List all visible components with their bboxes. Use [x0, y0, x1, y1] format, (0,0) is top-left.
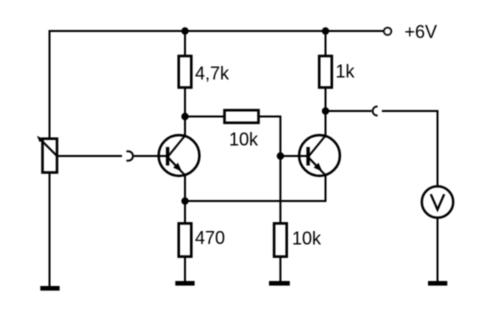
wire: 10k right side down to Q2 base node: [259, 117, 281, 157]
wire: Q1 collector up to resistor: [184, 88, 186, 137]
transistor Q2 collector stroke: [308, 136, 325, 157]
transistor Q2 circle: [299, 135, 340, 176]
transistor Q1 collector stroke: [168, 136, 185, 157]
svg-text:+6V: +6V: [405, 22, 438, 42]
wire: Q2 collector node to output connector: [326, 110, 372, 112]
wire: rail down to potentiometer top: [49, 30, 51, 139]
wire: input connector to Q1 base: [134, 155, 168, 157]
wire: Q2 emitter down: [325, 175, 327, 201]
wire: 10k to ground: [279, 257, 281, 282]
voltmeter V glyph: [431, 194, 444, 209]
node: emitter junction: [181, 197, 188, 204]
resistor 10k (coupling) body: [225, 110, 259, 123]
wire: wiper to input connector: [57, 155, 122, 157]
wire: potentiometer bottom to ground: [49, 173, 51, 287]
transistor Q1 emitter arrow: [173, 163, 182, 172]
svg-text:10k: 10k: [292, 229, 322, 249]
node: Q2 collector junction: [322, 107, 329, 114]
transistor Q1 circle: [159, 135, 200, 176]
node: rail / 1k junction: [322, 27, 329, 34]
transistor Q2 emitter stroke: [308, 157, 325, 175]
ground (470): [175, 281, 194, 286]
ground (10k): [269, 281, 290, 286]
potentiometer arrowhead: [37, 136, 43, 142]
wire: Q1 emitter down: [184, 175, 186, 201]
svg-text:4,7k: 4,7k: [195, 64, 230, 84]
wire: Q1 collector node to 10k coupling resistor: [185, 116, 225, 118]
resistor 470 body: [179, 223, 192, 256]
wire: Q2 collector up to 1k: [325, 88, 327, 137]
transistor Q1 base bar: [166, 147, 169, 166]
terminal +6V (open circle): [384, 28, 391, 35]
svg-text:10k: 10k: [229, 130, 259, 150]
resistor 1k body: [319, 56, 332, 88]
potentiometer body: [43, 139, 58, 173]
wire: rail to 4,7k: [184, 31, 186, 56]
node: rail / 4,7k junction: [181, 27, 188, 34]
output connector (half-circle): [373, 107, 378, 116]
potentiometer wiper diagonal: [40, 139, 57, 156]
transistor Q2 emitter arrow: [314, 163, 323, 172]
wire: Q2 base node down to 10k (crosses emitter wire): [279, 156, 281, 223]
transistor Q1 emitter stroke: [168, 157, 185, 175]
transistor Q2 base bar: [306, 147, 309, 166]
wire: rail to 1k: [325, 31, 327, 56]
wire: emitter rail: [185, 200, 326, 202]
wire: +6V supply rail: [49, 30, 384, 32]
node: Q2 base junction: [277, 152, 284, 159]
wire: output connector to voltmeter: [382, 111, 438, 186]
wire: 470 to ground: [184, 257, 186, 282]
wire: voltmeter to ground: [437, 218, 439, 282]
wire: emitter node to 470: [184, 201, 186, 223]
resistor 4,7k body: [179, 56, 192, 88]
resistor 10k (base bias) body: [274, 223, 287, 256]
input connector (half-circle): [126, 151, 133, 160]
ground (potentiometer): [40, 286, 59, 291]
ground (voltmeter): [428, 281, 447, 286]
voltmeter circle: [422, 186, 453, 217]
svg-text:1k: 1k: [336, 62, 356, 82]
node: Q1 collector junction: [181, 113, 188, 120]
svg-text:470: 470: [195, 228, 225, 248]
wire: Q2 base node to Q2 base: [280, 155, 308, 157]
